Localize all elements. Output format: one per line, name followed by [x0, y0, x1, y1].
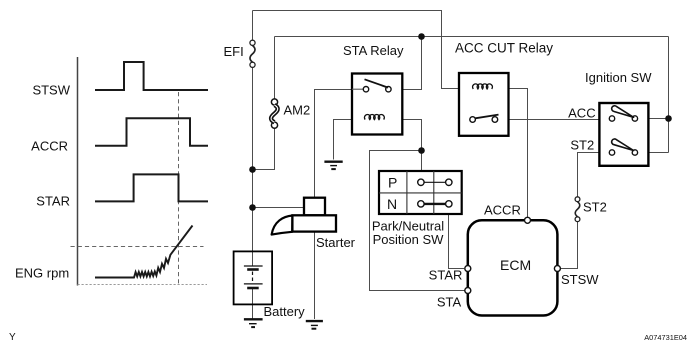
- svg-text:ACCR: ACCR: [484, 203, 521, 218]
- svg-text:ACC: ACC: [568, 106, 595, 121]
- svg-text:Y: Y: [9, 332, 16, 343]
- svg-text:STAR: STAR: [429, 268, 463, 283]
- svg-text:ACCR: ACCR: [31, 139, 68, 154]
- svg-text:ACC CUT Relay: ACC CUT Relay: [455, 41, 553, 56]
- svg-text:ST2: ST2: [583, 200, 607, 215]
- svg-text:N: N: [387, 196, 397, 212]
- svg-text:STA Relay: STA Relay: [343, 43, 404, 58]
- svg-text:Battery: Battery: [264, 304, 306, 319]
- svg-text:ECM: ECM: [500, 257, 531, 273]
- svg-text:ENG rpm: ENG rpm: [15, 266, 69, 281]
- svg-text:STSW: STSW: [561, 272, 599, 287]
- svg-text:STSW: STSW: [32, 83, 70, 98]
- svg-text:Starter: Starter: [316, 235, 356, 250]
- svg-text:EFI: EFI: [224, 44, 244, 59]
- svg-text:ST2: ST2: [570, 138, 594, 153]
- svg-text:STAR: STAR: [36, 194, 70, 209]
- svg-text:STA: STA: [437, 295, 462, 310]
- svg-text:A074731E04: A074731E04: [644, 333, 687, 342]
- svg-text:AM2: AM2: [284, 103, 311, 118]
- svg-text:P: P: [388, 175, 397, 191]
- svg-text:Ignition SW: Ignition SW: [585, 70, 652, 85]
- svg-text:Position SW: Position SW: [373, 232, 445, 247]
